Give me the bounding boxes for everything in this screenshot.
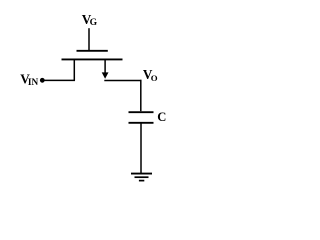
- transistor M1 channel bar: [62, 58, 123, 60]
- transistor M1 drain lead with arrow: [102, 59, 109, 78]
- ground bar 2: [135, 176, 149, 178]
- label VG: [82, 12, 98, 28]
- capacitor C top plate: [129, 111, 154, 113]
- wire VIN to source: [42, 79, 75, 81]
- svg-text:IN: IN: [28, 78, 39, 88]
- node VIN dot: [40, 78, 45, 83]
- svg-text:G: G: [90, 17, 98, 28]
- ground bar 3: [139, 180, 144, 182]
- transistor M1 gate bar: [77, 50, 108, 52]
- transistor M1 source lead: [73, 59, 75, 80]
- wire gate lead: [88, 28, 90, 51]
- label VO: [143, 67, 158, 83]
- wire drain to VO corner: [104, 80, 141, 82]
- svg-text:O: O: [151, 73, 158, 83]
- label VIN: [20, 72, 38, 89]
- capacitor C bottom plate: [129, 122, 154, 124]
- wire capacitor to ground: [140, 123, 142, 173]
- svg-text:C: C: [157, 110, 166, 124]
- ground bar 1: [131, 173, 152, 175]
- wire VO corner down to capacitor: [140, 80, 142, 111]
